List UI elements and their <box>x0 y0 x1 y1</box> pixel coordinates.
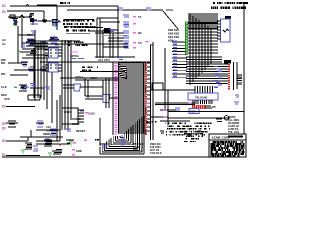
wire vertical x118 <box>117 6 119 58</box>
wire y30 <box>103 29 118 31</box>
ic U13 body <box>104 28 110 32</box>
svg-text:P2: P2 <box>150 43 154 47</box>
ic U17 bottom pins <box>193 100 212 104</box>
data bus right horizontal <box>186 57 228 83</box>
wire y118 right <box>168 117 230 119</box>
mid blue marks <box>70 58 84 60</box>
ground symbol G2 <box>17 50 20 52</box>
wire y117 <box>150 116 168 118</box>
wire y141b <box>36 140 60 142</box>
ic U17 box <box>188 93 218 100</box>
resistor pack RP2 red hatch <box>192 105 205 109</box>
gate U21 stubs <box>85 96 118 99</box>
svg-text:GND: GND <box>76 149 82 153</box>
vertical x97 <box>96 18 98 58</box>
wire y130 <box>36 129 60 131</box>
vertical bus x41 <box>40 41 42 98</box>
gate U7 <box>40 67 46 71</box>
gate column U15 <box>123 15 129 48</box>
wire y18 corner <box>97 17 118 19</box>
pin number glyphs blue <box>214 66 222 88</box>
wire y71 <box>80 71 125 73</box>
blue glyph y58 <box>118 58 123 60</box>
blue glyph x131 y64 <box>131 63 136 65</box>
ic U10 box <box>49 48 59 58</box>
extra blue glyphs left clusters <box>13 21 59 47</box>
ic U16 tab <box>225 16 231 19</box>
connector pad P7 <box>2 154 5 156</box>
transistor Q3 circle <box>224 116 228 120</box>
svg-text:RX: RX <box>138 31 142 35</box>
wire y109 <box>6 106 35 108</box>
connector J1 pin labels pink column <box>115 63 118 135</box>
cluster x8 y122 <box>8 121 16 127</box>
svg-text:CAD FILE: CAD FILE <box>150 152 162 155</box>
blue glyph bottom connector <box>122 135 124 147</box>
svg-text:RD: RD <box>1 61 5 65</box>
wire y57 center <box>95 56 135 58</box>
wire y144 <box>36 143 70 145</box>
gate column labels <box>138 15 142 45</box>
bottom center text block2 <box>150 143 162 155</box>
connector J1 body edge <box>150 45 152 140</box>
blue glyph x81 y112 <box>80 110 84 112</box>
connector J1 pin stubs <box>147 63 151 131</box>
ground symbol G6 <box>66 140 74 145</box>
svg-text:U14 CPU: U14 CPU <box>98 58 110 62</box>
top wire y10 <box>95 9 163 11</box>
gate U8 <box>19 85 29 91</box>
blue glyph x66 y130 <box>66 129 71 131</box>
pad x163 y109 <box>164 110 167 112</box>
wire y156 thick <box>6 155 40 157</box>
ic U19 text2 <box>72 117 81 126</box>
gate U5 <box>21 62 28 66</box>
svg-text:RP1: RP1 <box>27 33 33 37</box>
wire fan bundle <box>118 63 127 78</box>
left mid grid rows <box>22 43 48 58</box>
connector pad P3 <box>2 105 5 107</box>
ground symbol G5 <box>48 153 52 155</box>
connector J2 label blob <box>224 60 231 63</box>
marks right of RP2 <box>205 106 212 108</box>
net label rows top right <box>168 28 180 43</box>
address bus vertical fan <box>190 14 211 85</box>
resistor pack RN4 green pads <box>186 22 219 54</box>
top right title line2 <box>211 7 246 10</box>
wire vertical x44 <box>42 11 47 22</box>
gate U6 <box>28 67 34 71</box>
wire row y35 <box>18 34 35 36</box>
svg-text:74LS240: 74LS240 <box>195 96 208 100</box>
svg-text:C12: C12 <box>46 125 51 129</box>
vertical x85 <box>84 78 86 96</box>
wire y41 <box>108 40 125 42</box>
connector pad P5 <box>2 127 5 129</box>
vertical x100 <box>99 18 101 58</box>
vertical bus x68 <box>67 40 69 130</box>
pad x73 y143 <box>73 142 76 144</box>
svg-text:INT: INT <box>1 72 6 76</box>
blue glyphs x30 y84 <box>30 84 36 88</box>
notes text right column <box>228 115 240 134</box>
pad x72 y150 <box>72 149 75 151</box>
svg-text:ACME CORP: ACME CORP <box>212 136 231 140</box>
left label A0 A1 <box>2 38 6 46</box>
svg-text:74123: 74123 <box>64 110 72 114</box>
ground symbol G1 <box>14 24 17 26</box>
left net labels WR RD <box>1 58 6 65</box>
blue glyph y110 <box>175 108 180 110</box>
net label rows mid-right <box>172 41 187 78</box>
svg-text:KB4 KB5: KB4 KB5 <box>168 35 180 39</box>
resistor R1 <box>8 15 30 18</box>
wire y144 short <box>100 143 108 145</box>
center label <box>98 58 110 62</box>
mid label text <box>65 41 88 46</box>
wire y63 <box>8 62 22 64</box>
connector J1 wires upper <box>118 63 146 101</box>
vertical bus x52 <box>51 72 53 123</box>
vertical x103 mid <box>102 80 104 95</box>
cluster y146 left <box>25 143 38 151</box>
vertical bus x47 <box>46 58 48 109</box>
svg-text:VCC: VCC <box>4 97 10 101</box>
red junction dot <box>59 143 61 145</box>
gate column pads <box>133 16 136 49</box>
wire y10 extension <box>67 9 95 11</box>
box bottom edge <box>28 95 40 100</box>
vertical x153 <box>152 42 154 140</box>
blue glyph y9 x146 <box>146 8 151 10</box>
connector J1 wires lower staircase <box>100 103 146 154</box>
ic U16 box <box>221 19 231 42</box>
connector J2 red pin column <box>228 64 230 90</box>
cluster x44 y141 <box>44 140 52 146</box>
diagonal wire <box>163 11 178 29</box>
wire y70 <box>14 69 46 71</box>
wire y121 <box>160 120 190 122</box>
connector J2 right vertical <box>236 62 238 89</box>
vertical bus x65 <box>64 40 66 130</box>
svg-text:A1: A1 <box>2 42 6 46</box>
ic U11 pins <box>45 65 62 71</box>
connector pad P1 <box>2 5 5 7</box>
gate U21 <box>103 95 110 103</box>
title left text rows <box>184 130 206 142</box>
net top wire <box>10 5 118 6</box>
wires into U17 <box>195 86 213 93</box>
vertical x28 y137 <box>27 137 29 141</box>
connector pad P4 <box>2 123 5 125</box>
double wire y103 <box>155 103 195 105</box>
blue glyphs x45 y88 <box>45 87 50 89</box>
vertical x60 lower <box>59 95 61 141</box>
pad x146 y103 <box>147 102 150 104</box>
wire y111 right <box>168 111 244 113</box>
connector J1 right rail <box>143 63 145 133</box>
svg-text:8255A: 8255A <box>70 54 80 58</box>
vertical bus x62 <box>61 40 63 130</box>
wire vertical x35 <box>34 30 36 100</box>
vertical x31 <box>30 130 32 137</box>
cluster blue x36 y122 <box>36 121 44 127</box>
marks x90 y139 <box>95 139 99 141</box>
blue marks right edge <box>234 95 239 104</box>
svg-text:CLK: CLK <box>1 85 7 89</box>
connector pad P2 <box>2 11 5 13</box>
wire y123 <box>6 122 18 124</box>
wire y52 <box>20 51 34 53</box>
cluster below connector <box>146 121 157 123</box>
wire Q2 output <box>38 20 60 22</box>
resistor network RN3 <box>49 37 59 43</box>
pad x85 y112 <box>85 112 88 114</box>
vertical x103 <box>102 30 104 58</box>
wire y22 <box>100 21 120 23</box>
svg-text:OSC2: OSC2 <box>72 122 80 126</box>
sheet frame right border <box>243 2 245 157</box>
component cluster top-middle text rows <box>63 20 103 32</box>
ground symbol G4 <box>21 150 25 154</box>
wire y38 <box>108 37 125 39</box>
ic U19 pins right <box>78 110 84 122</box>
mid text3 <box>82 67 98 71</box>
svg-text:U21A: U21A <box>90 76 97 80</box>
marks before notes rows <box>216 119 222 122</box>
wire y137 <box>20 136 63 138</box>
transistor Q2 <box>29 14 38 26</box>
gate U20 <box>74 84 81 91</box>
svg-text:RP: RP <box>212 105 216 109</box>
center wire y47 <box>103 46 128 48</box>
vertical bus x44 <box>43 44 45 100</box>
svg-text:RESET: RESET <box>76 129 86 133</box>
top right title line1 <box>213 2 248 4</box>
gate U20 stubs <box>63 85 103 88</box>
bottom center text block1 <box>133 143 145 152</box>
vertical x113 <box>112 33 114 58</box>
pad x188 y103 <box>189 102 192 104</box>
wire vertical x100 bottom <box>99 118 101 146</box>
svg-text:TX: TX <box>138 15 142 19</box>
svg-text:REV 2.1: REV 2.1 <box>133 149 143 152</box>
svg-text:TOL 10%: TOL 10% <box>228 130 240 134</box>
title block outer box <box>209 134 246 157</box>
center wire y44 <box>92 43 128 45</box>
blue glyph x104 bottom <box>104 143 106 149</box>
svg-text:XTAL: XTAL <box>166 8 174 12</box>
svg-text:KB2 KB3: KB2 KB3 <box>168 32 180 36</box>
vertical bus x34 <box>33 48 35 98</box>
vertical bus x71 <box>70 40 72 120</box>
wire vertical x18 <box>17 26 19 63</box>
wire vertical x22 <box>21 18 23 48</box>
net row2 wire <box>7 10 44 12</box>
ic U10 pins <box>45 50 62 56</box>
wire y110 <box>160 109 180 111</box>
bottom center small marks <box>160 131 164 133</box>
diode D1 <box>19 15 24 18</box>
wire vertical x113 lower <box>112 62 114 135</box>
cluster x42 y135 <box>43 134 50 139</box>
vertical x109 <box>108 78 110 108</box>
ic U16 squiggle <box>223 29 229 32</box>
transistor Q1 <box>12 19 18 25</box>
blue junction y10 <box>118 8 123 10</box>
wire y90 right <box>150 89 195 91</box>
vertical x165 <box>164 48 166 110</box>
svg-text:KB0 KB1: KB0 KB1 <box>168 28 180 32</box>
ic U16 pins <box>217 21 221 39</box>
cluster blue x50 y130 <box>50 129 57 135</box>
pad x163 y116 <box>164 117 167 119</box>
title block dense text <box>211 141 245 157</box>
wire rows crossing mid <box>30 41 95 47</box>
long wire y62 <box>40 61 150 63</box>
wire y33 <box>95 32 125 34</box>
ic U11 box <box>49 63 59 72</box>
ic U19 box <box>62 108 78 124</box>
vertical bus x38 <box>37 44 39 98</box>
svg-text:CS: CS <box>138 41 142 45</box>
connector J1 left rail <box>118 63 120 133</box>
gray line y35 <box>100 35 127 37</box>
component U9 marks <box>29 49 37 55</box>
ground symbol G3 <box>14 86 17 88</box>
component U2 <box>52 20 61 27</box>
vertical x88 <box>87 80 89 98</box>
cluster x52 y152 <box>52 150 62 155</box>
connector J2 ticks <box>237 75 242 84</box>
inductor L1 bump <box>26 5 29 7</box>
pad x84 y140 <box>84 140 87 142</box>
wire y80 <box>75 79 118 81</box>
svg-text:CLK2: CLK2 <box>88 112 95 116</box>
ic U18 box <box>189 109 199 114</box>
wire y78 long <box>60 77 118 79</box>
pad x72 y155 <box>72 154 75 156</box>
notes text left column <box>165 123 212 136</box>
wire y141 left <box>6 140 28 142</box>
sheet frame bottom border <box>2 156 244 158</box>
blue glyph x110 y30 <box>109 30 114 32</box>
resistor network RN2 <box>26 39 36 45</box>
connector J1 red pin column <box>145 63 147 135</box>
connector pad P6 <box>2 140 5 142</box>
cluster top-middle marks <box>64 20 94 34</box>
vertical x168 <box>167 90 169 125</box>
pad near P2 <box>146 41 149 43</box>
title block header <box>212 136 244 140</box>
vertical x57 lower <box>56 100 58 141</box>
wire y88 <box>30 87 44 89</box>
vertical x106 <box>105 78 107 108</box>
title block divider <box>209 139 246 141</box>
connector J2 body edge <box>233 62 235 90</box>
small box x152 <box>152 83 163 90</box>
text x46 y128 <box>46 125 51 133</box>
wire vertical x57 <box>56 6 58 30</box>
crystal Y1 label <box>60 2 70 4</box>
wire y75 <box>10 74 28 76</box>
vertical x110 <box>109 30 111 58</box>
address bus top right horizontal <box>188 14 218 28</box>
